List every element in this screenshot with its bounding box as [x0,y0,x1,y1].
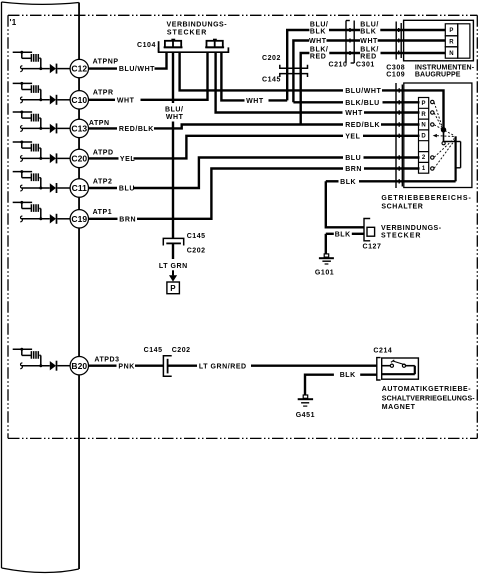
svg-text:GETRIEBEBEREICHS-: GETRIEBEBEREICHS- [381,195,471,202]
svg-text:RED: RED [360,53,376,60]
svg-text:C301: C301 [356,62,375,69]
svg-text:C12: C12 [71,64,87,74]
svg-text:G101: G101 [315,269,334,276]
svg-text:WHT: WHT [360,38,378,45]
svg-text:D: D [421,134,426,140]
svg-text:ATPNP: ATPNP [93,59,119,66]
svg-text:B20: B20 [71,361,87,371]
svg-text:SCHALTER: SCHALTER [381,204,423,211]
svg-text:C104: C104 [137,42,156,49]
svg-text:BLU/WHT: BLU/WHT [345,88,381,95]
svg-text:RED/BLK: RED/BLK [119,126,154,133]
svg-text:ATPD: ATPD [93,149,114,156]
svg-text:PNK: PNK [118,364,134,371]
svg-text:LT GRN: LT GRN [159,263,188,270]
svg-text:WHT: WHT [117,97,135,104]
svg-text:R: R [449,40,454,46]
svg-text:BLK: BLK [335,231,351,238]
svg-text:P: P [170,284,176,293]
svg-text:1: 1 [422,166,426,172]
svg-text:ATP2: ATP2 [93,178,113,185]
svg-text:N: N [449,51,454,57]
svg-text:VERBINDUNGS-: VERBINDUNGS- [167,22,228,29]
svg-text:2: 2 [422,155,426,161]
svg-text:WHT: WHT [309,38,327,45]
svg-text:YEL: YEL [120,156,135,163]
svg-text:C145: C145 [187,233,206,240]
svg-text:BLK/BLU: BLK/BLU [345,100,380,107]
svg-text:C20: C20 [71,153,87,163]
svg-text:C127: C127 [363,243,382,250]
svg-text:ATPN: ATPN [89,120,110,127]
svg-text:C145: C145 [144,347,163,354]
svg-text:MAGNET: MAGNET [382,404,416,411]
svg-text:BLU/: BLU/ [165,106,184,113]
svg-text:BLK: BLK [340,179,356,186]
svg-text:P: P [421,101,425,107]
svg-text:RED: RED [310,53,326,60]
svg-text:C202: C202 [187,248,206,255]
svg-text:SCHALTVERRIEGELUNGS-: SCHALTVERRIEGELUNGS- [382,395,475,402]
svg-text:C19: C19 [71,214,87,224]
svg-text:VERBINDUNGS-: VERBINDUNGS- [381,225,442,232]
svg-text:RED/BLK: RED/BLK [345,122,380,129]
svg-text:STECKER: STECKER [167,29,207,36]
svg-text:C202: C202 [262,55,281,62]
svg-text:BRN: BRN [119,216,136,223]
svg-text:WHT: WHT [246,98,264,105]
svg-text:BLK: BLK [310,28,326,35]
svg-text:ATPR: ATPR [93,90,114,97]
svg-text:C10: C10 [71,95,87,105]
svg-text:ATP1: ATP1 [93,209,113,216]
svg-text:C214: C214 [373,347,392,354]
svg-text:YEL: YEL [345,133,360,140]
svg-text:C210: C210 [329,62,348,69]
svg-text:WHT: WHT [166,114,184,121]
svg-text:WHT: WHT [345,110,363,117]
svg-text:N: N [421,123,426,129]
svg-text:C13: C13 [71,123,87,133]
svg-text:C202: C202 [172,347,191,354]
svg-text:BLU: BLU [119,186,135,193]
svg-text:BRN: BRN [345,166,362,173]
svg-text:P: P [449,28,453,34]
svg-text:C145: C145 [262,76,281,83]
svg-text:G451: G451 [296,412,315,419]
svg-text:BLU: BLU [345,155,361,162]
svg-text:C11: C11 [72,183,88,193]
svg-text:C109: C109 [386,71,405,78]
svg-text:'1: '1 [10,18,17,27]
svg-text:AUTOMATIKGETRIEBE-: AUTOMATIKGETRIEBE- [382,386,471,393]
svg-text:BLU/WHT: BLU/WHT [119,66,155,73]
svg-text:ATPD3: ATPD3 [94,356,119,363]
svg-text:BAUGRUPPE: BAUGRUPPE [415,71,461,78]
svg-text:R: R [421,112,426,118]
svg-text:STECKER: STECKER [381,233,421,240]
svg-text:BLK: BLK [360,28,376,35]
svg-text:BLK/: BLK/ [360,46,379,53]
svg-text:BLK: BLK [340,372,356,379]
svg-text:LT GRN/RED: LT GRN/RED [199,364,247,371]
svg-text:BLK/: BLK/ [310,46,329,53]
